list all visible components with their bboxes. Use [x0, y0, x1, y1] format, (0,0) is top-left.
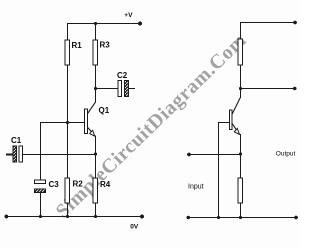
- node: collector / C2 junction: [94, 87, 97, 90]
- resistor R3: [93, 40, 98, 65]
- wire: base grounded column (right): [218, 122, 220, 217]
- wire: R4 top lead: [95, 154, 97, 178]
- svg-text:R1: R1: [72, 41, 83, 50]
- wire: base wire (right): [218, 122, 229, 124]
- wire: C2 output stub: [129, 88, 136, 90]
- svg-text:C1: C1: [11, 136, 22, 145]
- svg-text:Input: Input: [188, 184, 204, 191]
- node: right rail right end dot: [294, 216, 298, 220]
- node: ground rail left end dot: [4, 215, 8, 219]
- svg-text:+V: +V: [124, 12, 133, 19]
- wire: base column down to C3: [40, 122, 42, 180]
- node: right rail left end dot: [187, 216, 191, 220]
- wire: emitter vertical (right): [240, 134, 242, 154]
- wire: R3 top lead: [95, 23, 97, 40]
- wire: 0V ground rail (right circuit): [188, 217, 297, 219]
- wire: output line (right): [241, 88, 296, 90]
- transistor (right, common-base): [229, 98, 240, 135]
- node: base column / rail junction (right): [217, 216, 220, 219]
- svg-text:C3: C3: [49, 180, 60, 189]
- node: +V rail right end dot: [138, 22, 142, 26]
- node: R2 / rail junction: [66, 215, 69, 218]
- svg-text:C2: C2: [117, 71, 128, 80]
- wire: R3 bottom lead to collector node: [95, 65, 97, 88]
- wire: R2 bottom lead: [67, 203, 69, 217]
- resistor R4: [93, 178, 98, 203]
- wire: 0V ground rail (left circuit): [6, 216, 143, 218]
- node: collector / output junction (right): [239, 87, 242, 90]
- svg-text:R4: R4: [100, 180, 111, 189]
- svg-text:Output: Output: [276, 150, 296, 157]
- wire: collector vertical into transistor (right): [240, 89, 242, 99]
- node: base / divider junction: [66, 121, 69, 124]
- resistor R2: [65, 178, 70, 203]
- wire: emitter resistor top lead (right): [240, 154, 242, 178]
- wire: collector vertical into Q1: [95, 89, 97, 103]
- node: emitter / C1 / R4 junction: [94, 152, 97, 155]
- wire: C3 bottom lead: [40, 193, 42, 217]
- node: R4 / rail junction: [94, 215, 97, 218]
- svg-text:0V: 0V: [130, 224, 139, 231]
- svg-text:R2: R2: [73, 180, 84, 189]
- wire: collector resistor top lead (right): [240, 22, 242, 39]
- wire: divider column down to R2: [67, 122, 69, 178]
- resistor collector load (right): [238, 39, 243, 65]
- capacitor C3: [35, 180, 46, 193]
- node: ground rail right end dot: [140, 215, 144, 219]
- wire: R4 bottom lead: [95, 203, 97, 217]
- node: C3 / rail junction: [39, 215, 42, 218]
- wire: collector node to C2: [96, 88, 119, 90]
- wire: C1 to emitter node: [23, 154, 96, 156]
- wire: emitter resistor bottom lead (right): [240, 203, 242, 217]
- node: +V rail end dot (right): [293, 21, 297, 25]
- node: output line end dot: [293, 87, 297, 91]
- node: input line end dot: [187, 153, 191, 157]
- svg-text:R3: R3: [100, 41, 111, 50]
- node: rail / R3 junction: [94, 22, 97, 25]
- wire: resistor to collector node (right): [240, 65, 242, 89]
- wire: base wire to Q1: [40, 122, 85, 124]
- transistor Q1: [85, 102, 96, 136]
- wire: R1 bottom lead down to base node: [67, 65, 69, 122]
- wire: input line (right): [189, 154, 241, 156]
- svg-text:Q1: Q1: [99, 106, 110, 115]
- wire: R1 top lead: [67, 23, 69, 40]
- wire: +V supply rail (left circuit): [67, 23, 141, 25]
- resistor emitter (right): [238, 178, 243, 203]
- wire: +V rail (right circuit): [240, 22, 296, 24]
- node: emitter resistor / rail junction (right): [239, 216, 242, 219]
- wire: input stub into C1: [6, 154, 13, 156]
- wire: emitter vertical: [95, 136, 97, 155]
- capacitor C2: [118, 81, 129, 97]
- resistor R1: [65, 40, 70, 65]
- node: emitter / input junction (right): [239, 152, 242, 155]
- capacitor C1: [13, 146, 23, 162]
